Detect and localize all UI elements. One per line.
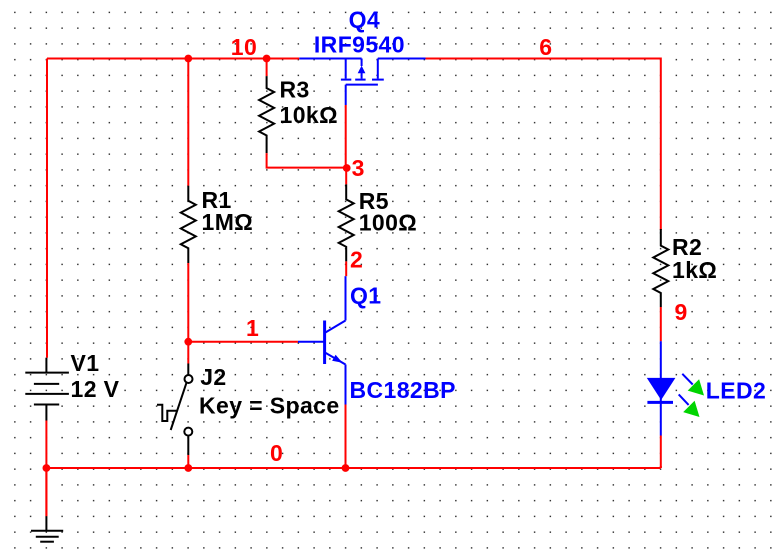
svg-text:0: 0: [270, 440, 283, 466]
Q4 reference label: [349, 6, 380, 32]
svg-text:9: 9: [675, 299, 688, 325]
resistor R1: [181, 59, 196, 342]
svg-text:IRF9540: IRF9540: [314, 31, 405, 57]
R5 reference label: [359, 188, 389, 214]
LED2 diode: [647, 341, 704, 435]
svg-text:3: 3: [352, 155, 365, 181]
svg-text:1: 1: [246, 315, 259, 341]
junction node1 at R1/J2 column: [184, 338, 192, 346]
svg-text:BC182BP: BC182BP: [350, 377, 456, 403]
R1 reference label: [202, 187, 232, 213]
wire gate of Q4 to node 3: [345, 105, 347, 168]
node 6 label: [539, 34, 552, 60]
node 10 label: [231, 34, 257, 60]
R2 reference label: [672, 234, 702, 260]
svg-text:R3: R3: [280, 76, 310, 102]
svg-text:Key = Space: Key = Space: [199, 393, 340, 419]
svg-text:6: 6: [539, 34, 552, 60]
Q4 value label IRF9540: [314, 31, 405, 57]
resistor R5: [339, 168, 354, 276]
wire Q1 emitter to net0: [345, 405, 347, 469]
junction net0 at J2 column: [184, 464, 192, 472]
LED2 reference label: [706, 378, 766, 404]
V1 reference label: [71, 350, 100, 376]
resistor R3: [259, 59, 347, 168]
svg-text:V1: V1: [71, 350, 100, 376]
voltage source V1: [25, 358, 69, 421]
J2 reference label: [200, 364, 226, 390]
R3 reference label: [280, 76, 310, 102]
svg-text:Q1: Q1: [350, 282, 381, 308]
wire V1 to net0: [45, 421, 47, 517]
wire net1: [188, 341, 298, 343]
svg-text:2: 2: [350, 247, 363, 273]
wire net6 top rail right: [426, 58, 661, 231]
node 3 junction: [343, 164, 351, 172]
V1 value label 12 V: [71, 376, 120, 402]
ground: [31, 516, 63, 542]
node 0 label: [270, 440, 283, 466]
R1 value label: [202, 209, 254, 235]
J2 key label: [199, 393, 340, 419]
junction top rail R1: [184, 55, 192, 63]
wire net0 bottom rail: [46, 466, 660, 468]
junction net0 at Q1 column: [342, 464, 350, 472]
node 1 label: [246, 315, 259, 341]
svg-text:12 V: 12 V: [71, 376, 120, 402]
svg-text:10: 10: [231, 34, 257, 60]
R5 value label: [359, 209, 417, 235]
svg-text:Q4: Q4: [349, 6, 380, 32]
svg-text:LED2: LED2: [706, 378, 766, 404]
resistor R2: [653, 229, 668, 341]
Q1 value label BC182BP: [350, 377, 456, 403]
svg-text:1MΩ: 1MΩ: [202, 209, 254, 235]
svg-text:1kΩ: 1kΩ: [672, 257, 717, 283]
R2 value label: [672, 257, 717, 283]
node 2 label: [350, 247, 363, 273]
svg-text:10kΩ: 10kΩ: [280, 102, 338, 128]
wire Q4 drain stub: [378, 58, 426, 60]
R3 value label: [280, 102, 338, 128]
junction top rail R3: [263, 55, 271, 63]
svg-text:J2: J2: [200, 364, 226, 390]
Q1 reference label: [350, 282, 381, 308]
node 3 label: [352, 155, 365, 181]
wire LED2 cathode to net0: [660, 436, 662, 469]
transistor Q1 (BC182BP NPN): [298, 276, 346, 404]
wire Q4 source stub: [299, 58, 361, 60]
junction net0 at V1 column: [43, 464, 51, 472]
switch J2: [157, 342, 193, 468]
wire net0 to ground: [45, 468, 47, 516]
transistor Q4 (PMOS IRF9540): [341, 59, 384, 106]
svg-text:100Ω: 100Ω: [359, 209, 417, 235]
wire net10 top rail left: [47, 59, 299, 358]
node 9 label: [675, 299, 688, 325]
